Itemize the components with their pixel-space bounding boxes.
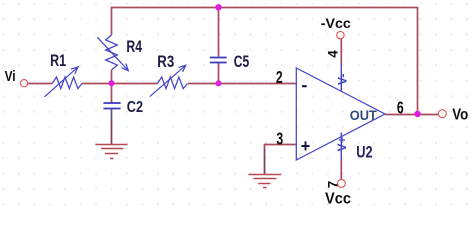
svg-text:Vo: Vo: [452, 106, 468, 123]
svg-text:V-: V-: [335, 74, 349, 85]
ground at pin 3: [248, 175, 281, 188]
wire feedback vertical: [417, 8, 419, 115]
resistor R3 arrow: [150, 65, 186, 96]
svg-text:Vcc: Vcc: [325, 191, 351, 208]
svg-text:R1: R1: [50, 51, 66, 70]
svg-text:-Vcc: -Vcc: [321, 15, 351, 31]
wire -Vcc to pin 4: [340, 39, 342, 63]
svg-text:6: 6: [397, 98, 404, 118]
wire R4 bottom lead: [111, 70, 113, 84]
wire R4 top lead: [111, 8, 113, 36]
svg-text:7: 7: [325, 181, 340, 189]
terminal -Vcc: [337, 31, 344, 38]
node junction C5 top rail: [215, 4, 221, 10]
wire pin 3 to ground: [264, 145, 266, 151]
svg-text:R3: R3: [157, 52, 174, 71]
resistor R1: [52, 77, 82, 89]
terminal Vcc: [338, 180, 346, 188]
op-amp plus input symbol: [301, 141, 309, 150]
op-amp minus input symbol: [302, 85, 307, 87]
wire R3 to op-amp pin 2: [188, 83, 296, 85]
node junction output: [414, 111, 420, 117]
svg-text:C2: C2: [127, 99, 143, 116]
wire C2 to ground: [111, 109, 113, 122]
resistor R4: [106, 35, 118, 70]
wire Vi to R1: [28, 83, 53, 85]
wire output pin 6 to Vo: [385, 114, 438, 116]
terminal Vi: [21, 80, 28, 87]
wire C5 bottom lead: [218, 63, 220, 84]
resistor R1 arrow: [45, 67, 79, 97]
svg-text:U2: U2: [356, 143, 372, 162]
capacitor C2: [103, 103, 120, 109]
wire op-amp pin 3: [264, 144, 296, 146]
op-amp V+ power pin: [340, 133, 342, 160]
resistor R4 arrow: [97, 37, 128, 70]
svg-text:OUT: OUT: [350, 107, 377, 123]
wire C5 top lead: [218, 8, 220, 57]
wire C2 top lead: [111, 84, 113, 103]
wire Vcc to pin 7: [340, 159, 342, 180]
svg-text:Vi: Vi: [5, 69, 16, 85]
node junction C5 bottom: [216, 80, 222, 86]
ground at C2: [95, 145, 127, 159]
terminal Vo: [438, 110, 446, 118]
capacitor C5: [210, 58, 227, 63]
svg-text:R4: R4: [126, 37, 142, 56]
svg-text:4: 4: [325, 50, 340, 58]
svg-text:3: 3: [276, 128, 283, 148]
wire R1 to R3 through node: [82, 83, 157, 85]
op-amp V- power pin: [340, 63, 342, 91]
svg-text:V+: V+: [335, 136, 349, 151]
wire top rail: [111, 7, 419, 9]
node junction R1 R4 C2 R3: [109, 80, 115, 86]
svg-text:C5: C5: [234, 52, 249, 71]
op-amp U2 triangle: [296, 68, 385, 160]
svg-text:2: 2: [276, 67, 283, 87]
resistor R3: [157, 77, 187, 89]
